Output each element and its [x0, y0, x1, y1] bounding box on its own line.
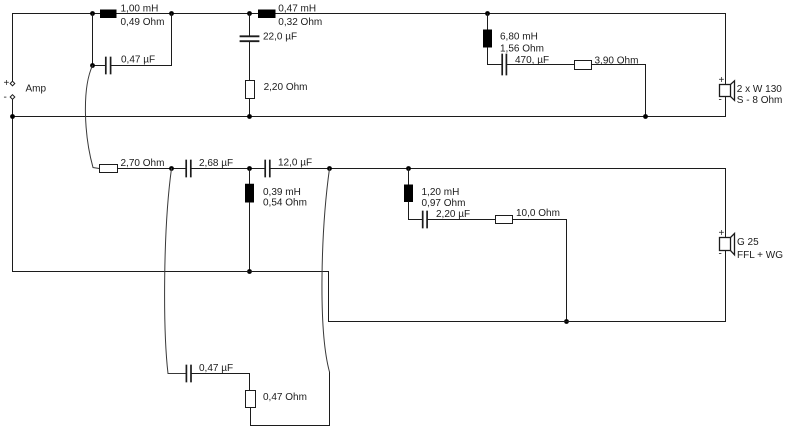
svg-text:2,68 µF: 2,68 µF	[199, 158, 233, 169]
svg-text:S - 8 Ohm: S - 8 Ohm	[737, 95, 783, 106]
inductor L1 1,00 mH	[100, 10, 117, 19]
capacitor C2 22,0 uF (plates)	[241, 36, 259, 41]
svg-text:+: +	[4, 78, 10, 89]
speaker SP1 2 x W 130 S (box)	[720, 85, 731, 97]
node C (junction at C1 where curve departs)	[90, 63, 95, 68]
wire C7 to R6	[192, 374, 250, 391]
svg-text:10,0 Ohm: 10,0 Ohm	[516, 208, 560, 219]
wire curved link back to node K	[322, 169, 330, 373]
svg-text:0,47 mH: 0,47 mH	[278, 4, 316, 15]
capacitor C1 0,47 uF (plates)	[106, 58, 111, 74]
wire bottom rail of top section	[13, 116, 726, 118]
wire to speaker SP1	[725, 14, 727, 85]
wire C3 to R3	[507, 64, 574, 66]
wire mid rail segment 1	[118, 168, 186, 170]
wire node F down	[487, 14, 489, 30]
speaker SP2 G 25 (box)	[720, 238, 731, 251]
node K (junction after C5)	[327, 166, 332, 171]
svg-text:FFL + WG: FFL + WG	[737, 250, 783, 261]
wire mid return rail	[13, 272, 726, 322]
resistor R3 3,90 Ohm	[575, 61, 592, 70]
wire C6 to R5	[428, 219, 496, 221]
svg-text:1,20 mH: 1,20 mH	[422, 187, 460, 198]
wire amp negative lead down to return rail	[12, 99, 14, 271]
speaker SP1 cone	[731, 81, 735, 101]
capacitor C4 2,68 uF (plates)	[186, 161, 191, 177]
svg-text:0,49 Ohm: 0,49 Ohm	[121, 17, 165, 28]
node J (junction after C4)	[247, 166, 252, 171]
inductor L2 0,47 mH	[258, 10, 276, 19]
node I (junction after R4)	[169, 166, 174, 171]
wire amp positive lead	[12, 14, 14, 82]
svg-text:2,20 Ohm: 2,20 Ohm	[264, 82, 308, 93]
wire curved link node I to notch capacitor	[165, 169, 186, 374]
node F (junction before L3)	[485, 11, 490, 16]
wire R6 to curve back	[251, 372, 330, 426]
wire to speaker SP2	[725, 169, 727, 238]
node D (junction before L2)	[247, 11, 252, 16]
wire top rail	[13, 13, 726, 15]
node N (junction on lower return rail)	[564, 319, 569, 324]
svg-text:0,32 Ohm: 0,32 Ohm	[278, 17, 322, 28]
svg-text:G 25: G 25	[737, 237, 759, 248]
node E (junction on bottom rail)	[247, 114, 252, 119]
wire right leg of C1 branch	[112, 14, 172, 66]
svg-text:3,90 Ohm: 3,90 Ohm	[595, 56, 639, 67]
svg-text:Amp: Amp	[26, 84, 47, 95]
svg-text:0,54 Ohm: 0,54 Ohm	[263, 198, 307, 209]
resistor R5 10,0 Ohm	[496, 216, 513, 224]
inductor L5 1,20 mH (vertical)	[404, 185, 413, 203]
capacitor C7 0,47 uF (plates)	[186, 366, 191, 382]
node M (junction on return rail)	[247, 269, 252, 274]
wire speaker SP1 to bottom rail	[725, 97, 727, 117]
wire node L down to L5	[408, 169, 410, 185]
svg-text:0,47 Ohm: 0,47 Ohm	[263, 392, 307, 403]
wire mid rail segment 2	[192, 168, 264, 170]
node B (junction after L1)	[169, 11, 174, 16]
svg-text:0,97 Ohm: 0,97 Ohm	[422, 198, 466, 209]
svg-text:-: -	[719, 95, 722, 106]
resistor R4 2,70 Ohm	[100, 165, 118, 173]
svg-text:0,47 µF: 0,47 µF	[199, 363, 233, 374]
wire L5 to C6	[409, 202, 422, 220]
wire mid rail segment 3	[271, 168, 726, 170]
resistor R6 0,47 Ohm (vertical)	[246, 391, 256, 408]
wire L3 to C3	[488, 48, 502, 65]
inductor L3 6,80 mH (vertical)	[483, 30, 492, 48]
node H (junction on bottom rail at amp)	[10, 114, 15, 119]
capacitor C5 12,0 uF (plates)	[265, 161, 270, 177]
svg-text:-: -	[719, 249, 722, 260]
wire speaker SP2 to lower return rail	[725, 251, 727, 322]
wire from C2 down to R2	[249, 42, 251, 81]
resistor R2 2,20 Ohm	[246, 81, 255, 99]
svg-text:2,20 µF: 2,20 µF	[436, 209, 470, 220]
svg-text:1,56 Ohm: 1,56 Ohm	[500, 43, 544, 54]
node L (junction at L5)	[406, 166, 411, 171]
svg-text:2 x W 130: 2 x W 130	[737, 84, 782, 95]
svg-text:+: +	[719, 75, 725, 86]
svg-text:0,47 µF: 0,47 µF	[121, 54, 155, 65]
svg-text:1,00 mH: 1,00 mH	[121, 4, 159, 15]
node A (junction before L1)	[90, 11, 95, 16]
svg-text:22,0 µF: 22,0 µF	[263, 31, 297, 42]
wire node J down to L4	[249, 169, 251, 184]
capacitor C6 2,20 uF (plates)	[423, 212, 427, 228]
svg-text:+: +	[719, 228, 725, 239]
wire left leg of C1 branch	[93, 14, 106, 66]
svg-text:0,39 mH: 0,39 mH	[263, 187, 301, 198]
node G (junction on bottom rail)	[643, 114, 648, 119]
wire from node D down to C2	[249, 14, 251, 36]
wire from R2 to bottom rail	[249, 99, 251, 117]
svg-text:2,70 Ohm: 2,70 Ohm	[121, 158, 165, 169]
amp terminal - (diamond)	[10, 95, 15, 100]
wire R3 to bottom rail	[592, 65, 646, 117]
capacitor C3 470 uF (plates)	[502, 55, 506, 75]
wire R5 to lower return rail	[513, 220, 567, 322]
wire L4 to return rail	[249, 203, 251, 272]
amp terminal + (diamond)	[10, 81, 15, 86]
inductor L4 0,39 mH (vertical)	[245, 184, 254, 203]
svg-text:470, µF: 470, µF	[515, 55, 549, 66]
wire curved link to midrange resistor	[85, 66, 99, 169]
svg-text:-: -	[4, 92, 7, 103]
svg-text:12,0 µF: 12,0 µF	[278, 157, 312, 168]
svg-text:6,80 mH: 6,80 mH	[500, 31, 538, 42]
speaker SP2 cone	[731, 234, 735, 255]
